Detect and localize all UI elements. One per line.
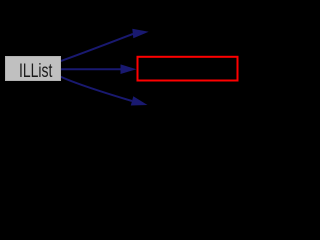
svg-text:ILList: ILList [19, 60, 53, 82]
